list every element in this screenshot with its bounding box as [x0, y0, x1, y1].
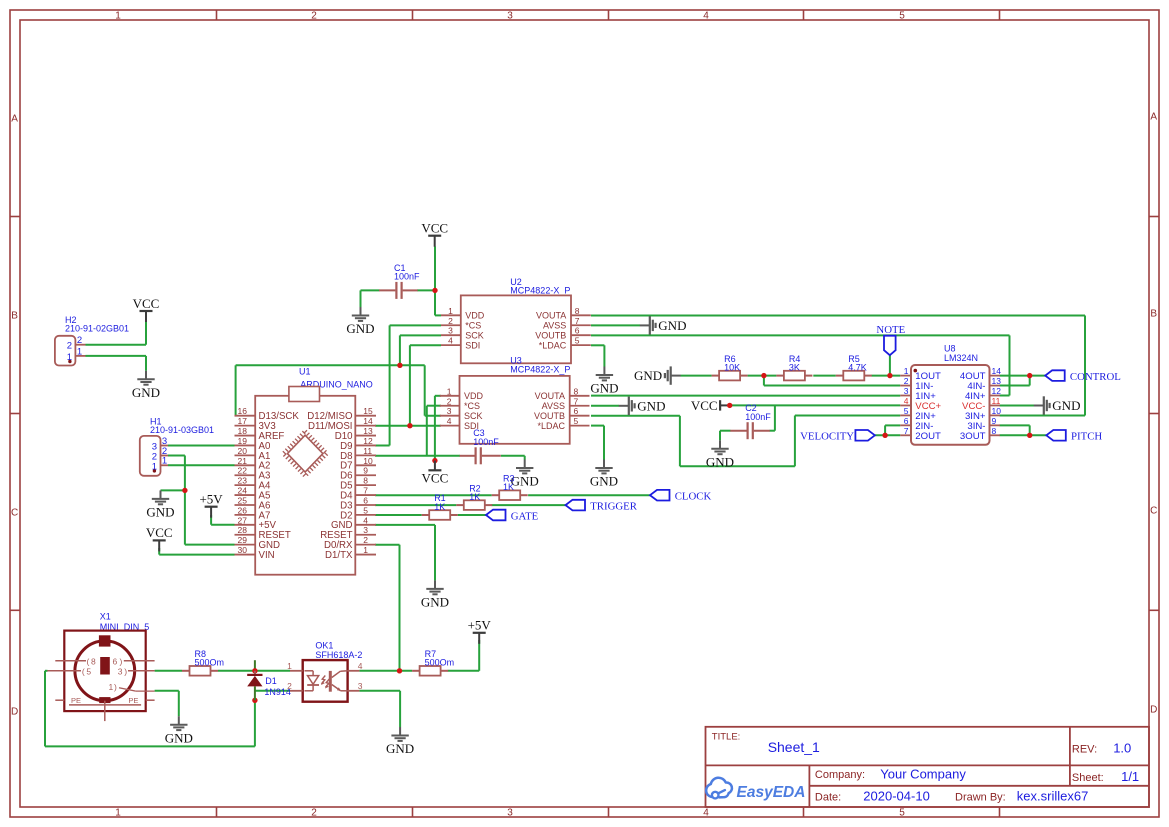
- svg-text:C: C: [11, 508, 18, 519]
- svg-text:GND: GND: [132, 385, 160, 400]
- svg-text:5: 5: [899, 11, 905, 22]
- svg-text:10K: 10K: [724, 362, 740, 372]
- svg-text:2: 2: [904, 376, 909, 386]
- svg-text:5: 5: [575, 336, 580, 346]
- svg-text:VCC: VCC: [146, 525, 173, 540]
- svg-text:2: 2: [287, 681, 292, 691]
- wire R8 to OK1.1: [218, 670, 290, 672]
- resistor R6 10K: [712, 354, 748, 381]
- svg-text:SCK: SCK: [465, 331, 484, 341]
- IC U2 MCP4822-X_P: [441, 277, 591, 364]
- svg-text:2: 2: [447, 396, 452, 406]
- wire PITCH node to U8.3IN-: [1029, 425, 1031, 435]
- svg-text:VCC: VCC: [133, 296, 160, 311]
- svg-text:1: 1: [904, 366, 909, 376]
- wire D4 row to R3 to CLOCK: [375, 494, 492, 496]
- resistor R1 1K: [422, 493, 458, 520]
- svg-text:GND: GND: [146, 505, 174, 520]
- svg-text:VDD: VDD: [465, 311, 485, 321]
- optocoupler OK1 SFH618A-2: [287, 640, 363, 701]
- power flag VCC (VIN): [146, 525, 173, 551]
- svg-text:18: 18: [238, 426, 248, 436]
- wire VELOCITY to U8.2OUT/2IN-: [875, 434, 900, 436]
- svg-text:8: 8: [575, 306, 580, 316]
- wire CONTROL node to U8.4IN-: [1029, 376, 1031, 386]
- resistor R5 4.7K: [836, 354, 872, 381]
- wire U3.VOUTB loop to U8.2IN+: [591, 415, 680, 417]
- svg-text:D: D: [11, 707, 18, 718]
- svg-text:GND: GND: [634, 368, 662, 383]
- IC U3 MCP4822-X_P: [440, 356, 590, 444]
- svg-text:500Om: 500Om: [195, 658, 225, 668]
- ground GND (C2): [706, 440, 734, 469]
- wire H2.1 to GND: [86, 355, 147, 357]
- svg-text:SFH618A-2: SFH618A-2: [315, 650, 362, 660]
- svg-text:1: 1: [162, 456, 167, 467]
- wire D2 row to R1 to GATE: [375, 514, 422, 516]
- svg-text:): ): [124, 666, 127, 676]
- svg-text:210-91-03GB01: 210-91-03GB01: [150, 425, 214, 435]
- IC U8 LM324N: [900, 344, 1001, 445]
- svg-text:(: (: [82, 666, 85, 676]
- svg-text:5: 5: [899, 807, 905, 818]
- svg-text:VOUTB: VOUTB: [535, 331, 566, 341]
- svg-text:27: 27: [238, 515, 248, 525]
- resistor R4 3K: [776, 354, 812, 381]
- wire U2.VOUTA to U8.3IN+: [591, 315, 1085, 317]
- svg-text:100nF: 100nF: [745, 412, 771, 422]
- svg-text:5: 5: [86, 666, 91, 676]
- svg-text:GND: GND: [637, 398, 665, 413]
- svg-text:CONTROL: CONTROL: [1070, 371, 1121, 383]
- svg-text:1: 1: [109, 682, 114, 692]
- svg-text:3: 3: [358, 681, 363, 691]
- wire VCC mid to U8.VCC+: [730, 404, 901, 406]
- svg-text:SCK: SCK: [464, 411, 483, 421]
- svg-text:3OUT: 3OUT: [960, 431, 986, 442]
- svg-text:8: 8: [574, 386, 579, 396]
- wire R4 to R5: [813, 375, 836, 377]
- svg-text:VOUTA: VOUTA: [535, 391, 565, 401]
- wire R6/R4 node to U8.1IN-: [763, 376, 765, 386]
- wire U3.AVSS to GND flag: [591, 405, 619, 407]
- svg-text:4: 4: [703, 807, 709, 818]
- svg-text:7: 7: [574, 396, 579, 406]
- wire U3.*LDAC to GND: [591, 425, 604, 427]
- svg-text:A: A: [1150, 112, 1157, 123]
- svg-text:+5V: +5V: [468, 618, 492, 633]
- frame row labels right: [1150, 112, 1157, 716]
- wire R5 to U8.1OUT: [872, 375, 901, 377]
- svg-text:PE: PE: [128, 696, 138, 705]
- svg-text:11: 11: [992, 396, 1001, 406]
- svg-text:5: 5: [363, 505, 368, 515]
- svg-text:20: 20: [238, 446, 248, 456]
- svg-text:EasyEDA: EasyEDA: [737, 784, 806, 801]
- svg-text:100nF: 100nF: [473, 437, 499, 447]
- svg-text:3: 3: [118, 666, 123, 676]
- wire H2.2 to VCC: [86, 344, 147, 346]
- svg-text:PITCH: PITCH: [1071, 431, 1102, 443]
- svg-text:Drawn By:: Drawn By:: [955, 792, 1006, 804]
- wire SCK net D13 to U3.SCK: [235, 365, 237, 415]
- svg-text:9: 9: [363, 466, 368, 476]
- svg-text:500Om: 500Om: [425, 658, 455, 668]
- svg-text:Your Company: Your Company: [880, 766, 966, 781]
- svg-text:8: 8: [91, 656, 96, 666]
- diode D1 1N914: [247, 671, 291, 701]
- svg-text:2020-04-10: 2020-04-10: [863, 789, 930, 804]
- svg-text:GND: GND: [590, 381, 618, 396]
- wire H1.1 to A2: [168, 464, 235, 466]
- svg-text:1.0: 1.0: [1113, 740, 1131, 755]
- svg-text:B: B: [11, 311, 18, 322]
- wire U2.SCK to SCK net: [400, 334, 441, 336]
- svg-text:6: 6: [113, 656, 118, 666]
- netport CLOCK: [650, 490, 711, 503]
- svg-text:14: 14: [992, 366, 1002, 376]
- svg-text:D1/TX: D1/TX: [325, 550, 353, 561]
- svg-text:25: 25: [238, 495, 248, 505]
- svg-text:4: 4: [363, 515, 368, 525]
- title block: [706, 727, 1150, 807]
- svg-text:6: 6: [575, 326, 580, 336]
- svg-text:2: 2: [67, 341, 72, 352]
- svg-text:8: 8: [992, 426, 997, 436]
- svg-text:5: 5: [904, 406, 909, 416]
- svg-text:GND: GND: [386, 741, 414, 756]
- svg-text:(: (: [87, 656, 90, 666]
- wire U3.VDD to VCC flag: [435, 395, 441, 397]
- svg-text:3: 3: [507, 807, 513, 818]
- svg-text:7: 7: [575, 316, 580, 326]
- svg-text:): ): [120, 656, 123, 666]
- svg-text:D: D: [1150, 705, 1157, 716]
- svg-text:2: 2: [448, 316, 453, 326]
- svg-text:17: 17: [238, 416, 248, 426]
- svg-text:LM324N: LM324N: [944, 353, 978, 363]
- wire U8.3OUT to PITCH: [1000, 434, 1047, 436]
- svg-text:4: 4: [904, 396, 909, 406]
- svg-text:22: 22: [238, 466, 248, 476]
- wire X1.1 to GND: [155, 690, 179, 692]
- wire H1.3 to A0: [168, 445, 235, 447]
- svg-text:1/1: 1/1: [1121, 769, 1139, 784]
- wire C1 left to GND: [361, 289, 380, 291]
- svg-text:1: 1: [115, 11, 121, 22]
- netport VELOCITY: [800, 430, 875, 443]
- power flag +5V (pin27): [199, 492, 223, 518]
- svg-text:PE: PE: [71, 696, 81, 705]
- svg-text:28: 28: [238, 525, 248, 535]
- svg-text:GND: GND: [421, 595, 449, 610]
- svg-text:26: 26: [238, 505, 248, 515]
- svg-text:12: 12: [992, 386, 1002, 396]
- ground GND (Arduino GND pin): [421, 580, 449, 609]
- svg-text:1: 1: [115, 807, 121, 818]
- wire OK1.2 to D1: [255, 690, 290, 692]
- svg-text:VELOCITY: VELOCITY: [800, 431, 854, 443]
- svg-text:*LDAC: *LDAC: [537, 421, 565, 431]
- svg-text:U1: U1: [299, 367, 311, 377]
- wire U8.4OUT to CONTROL: [1000, 375, 1046, 377]
- wire X1.3 to R8: [155, 670, 182, 672]
- svg-text:2: 2: [363, 535, 368, 545]
- resistor R8 500Om: [182, 649, 224, 676]
- ground GND (U2 LDAC): [590, 367, 618, 396]
- wire U2.SDI drop: [410, 344, 441, 346]
- power flag VCC (U3 VDD): [432, 458, 437, 463]
- wire U2.AVSS to GND flag: [591, 324, 640, 326]
- svg-text:14: 14: [363, 416, 373, 426]
- ground GND (H1/pin2 node): [146, 490, 174, 519]
- wire D8 to C3: [375, 455, 460, 457]
- wire GND flag to R6: [681, 375, 712, 377]
- svg-text:1: 1: [448, 306, 453, 316]
- svg-text:3: 3: [448, 326, 453, 336]
- svg-text:19: 19: [238, 436, 248, 446]
- ground flag GND (U8 VCC-): [1034, 396, 1081, 414]
- svg-text:VCC: VCC: [421, 221, 448, 236]
- svg-text:*LDAC: *LDAC: [539, 340, 567, 350]
- wire D11/MOSI to U3.SDI: [375, 425, 441, 427]
- svg-text:D1: D1: [265, 676, 277, 686]
- svg-text:23: 23: [238, 476, 248, 486]
- ground GND (OK1.3): [386, 727, 414, 756]
- svg-text:3: 3: [507, 11, 513, 22]
- svg-text:): ): [114, 682, 117, 692]
- svg-text:3K: 3K: [789, 362, 800, 372]
- svg-text:3: 3: [447, 406, 452, 416]
- svg-text:AVSS: AVSS: [542, 401, 565, 411]
- svg-text:2OUT: 2OUT: [915, 431, 941, 442]
- ground flag GND (U3 AVSS): [619, 397, 666, 415]
- wire D3 row to R2 to TRIGGER: [375, 504, 456, 506]
- wire Arduino GND pin to GND: [375, 524, 435, 526]
- svg-text:12: 12: [363, 436, 373, 446]
- svg-text:Sheet:: Sheet:: [1072, 772, 1104, 784]
- svg-text:1: 1: [77, 346, 82, 357]
- svg-text:VCC: VCC: [691, 398, 718, 413]
- svg-text:GND: GND: [511, 474, 539, 489]
- svg-text:GND: GND: [590, 474, 618, 489]
- svg-text:GATE: GATE: [511, 510, 539, 522]
- svg-text:16: 16: [238, 406, 248, 416]
- svg-text:4.7K: 4.7K: [848, 362, 867, 372]
- wire VCC to VIN: [158, 548, 160, 555]
- svg-text:B: B: [1150, 309, 1157, 320]
- netport CONTROL: [1045, 370, 1121, 383]
- IC U1 ARDUINO_NANO: [235, 367, 377, 575]
- wire D1 top stub: [254, 660, 256, 671]
- capacitor C1 100nF: [379, 263, 420, 299]
- wire C3 right to GND: [501, 455, 525, 457]
- wire C2 left to GND: [720, 430, 731, 432]
- svg-text:Sheet_1: Sheet_1: [768, 739, 820, 755]
- EasyEDA logo: [706, 778, 805, 801]
- ground GND (X1 pin1): [165, 716, 193, 745]
- connector X1 MINI_DIN_5: [47, 612, 154, 722]
- svg-text:21: 21: [238, 456, 248, 466]
- svg-text:C: C: [1150, 506, 1157, 517]
- svg-text:MCP4822-X_P: MCP4822-X_P: [510, 364, 570, 374]
- netport GATE: [486, 510, 539, 523]
- wire D0/RX to OK1.4 row: [375, 544, 400, 546]
- svg-text:24: 24: [238, 486, 248, 496]
- svg-text:TRIGGER: TRIGGER: [590, 500, 638, 512]
- power flag VCC top (C1): [421, 221, 448, 247]
- svg-text:X1: X1: [100, 612, 111, 622]
- ground flag GND (R6 left): [634, 366, 681, 384]
- svg-text:2: 2: [77, 335, 82, 346]
- resistor R2 1K: [456, 483, 492, 510]
- svg-text:1K: 1K: [503, 482, 514, 492]
- wire U8.VCC- to GND flag: [1000, 405, 1036, 407]
- capacitor C3 100nF: [460, 428, 501, 464]
- connector H2 210-91-02GB01: [55, 315, 129, 365]
- wire H1.2 to GND and Arduino GND: [168, 455, 185, 457]
- wire OK1.4 to R7: [359, 670, 412, 672]
- svg-text:1: 1: [447, 386, 452, 396]
- svg-text:TITLE:: TITLE:: [712, 732, 741, 743]
- svg-text:6: 6: [904, 416, 909, 426]
- svg-text:REV:: REV:: [1072, 743, 1097, 755]
- power flag VCC (H2): [133, 296, 160, 322]
- svg-text:SDI: SDI: [465, 340, 480, 350]
- svg-text:4: 4: [448, 336, 453, 346]
- netport PITCH: [1046, 430, 1102, 443]
- power flag +5V (R7): [468, 618, 492, 644]
- connector H1 210-91-03GB01: [140, 416, 214, 475]
- netport TRIGGER: [566, 500, 638, 513]
- svg-text:100nF: 100nF: [394, 272, 420, 282]
- svg-text:4: 4: [703, 11, 709, 22]
- svg-text:3: 3: [363, 525, 368, 535]
- svg-text:3: 3: [904, 386, 909, 396]
- svg-text:4: 4: [358, 661, 363, 671]
- wire VCC node to U2.VDD: [434, 290, 436, 315]
- svg-text:10: 10: [992, 406, 1002, 416]
- svg-text:GND: GND: [658, 318, 686, 333]
- netport NOTE: [876, 324, 905, 355]
- wire OK1.3 to GND: [359, 690, 400, 692]
- svg-text:A: A: [11, 114, 18, 125]
- svg-text:2: 2: [311, 11, 317, 22]
- wire X1.5 loop to D1 anode: [254, 700, 256, 746]
- wire +5V to pin27: [210, 515, 212, 525]
- svg-text:8: 8: [363, 476, 368, 486]
- capacitor C2 100nF: [730, 403, 771, 439]
- svg-text:10: 10: [363, 456, 373, 466]
- wire U2.*CS to D9: [390, 324, 441, 326]
- ground GND (U3 LDAC): [590, 460, 618, 489]
- svg-text:GND: GND: [165, 730, 193, 745]
- svg-text:210-91-02GB01: 210-91-02GB01: [65, 324, 129, 334]
- wire R7 to +5V: [448, 670, 480, 672]
- svg-text:NOTE: NOTE: [876, 324, 905, 336]
- svg-text:2: 2: [311, 807, 317, 818]
- svg-text:VDD: VDD: [464, 391, 484, 401]
- svg-text:6: 6: [574, 406, 579, 416]
- wire U3.*CS drop to D8 net: [427, 405, 441, 407]
- svg-text:GND: GND: [1052, 398, 1080, 413]
- svg-text:6: 6: [363, 495, 368, 505]
- wire U3.VOUTA to U8.1IN+: [591, 395, 900, 397]
- svg-text:15: 15: [363, 406, 373, 416]
- svg-text:VCC: VCC: [422, 470, 449, 485]
- svg-text:kex.srillex67: kex.srillex67: [1017, 789, 1089, 804]
- wire C1 right to VCC node: [417, 289, 435, 291]
- svg-text:13: 13: [992, 376, 1002, 386]
- wire U2.*LDAC to GND: [591, 344, 604, 346]
- svg-text:VIN: VIN: [259, 550, 275, 561]
- svg-text:9: 9: [992, 416, 997, 426]
- svg-text:5: 5: [574, 416, 579, 426]
- svg-text:CLOCK: CLOCK: [675, 491, 712, 503]
- frame column labels bottom: [115, 807, 905, 818]
- wire U2.VOUTB to U8.4IN+: [591, 334, 1010, 336]
- svg-text:4: 4: [447, 416, 452, 426]
- svg-text:MCP4822-X_P: MCP4822-X_P: [510, 286, 570, 296]
- ground flag GND (U2 AVSS): [640, 316, 687, 334]
- ground GND (C3): [511, 460, 539, 489]
- svg-text:1: 1: [287, 661, 292, 671]
- svg-text:Company:: Company:: [815, 769, 865, 781]
- svg-text:7: 7: [904, 426, 909, 436]
- svg-text:VOUTB: VOUTB: [534, 411, 565, 421]
- frame column labels top: [115, 11, 905, 22]
- wire R6 to R4: [748, 375, 777, 377]
- wire NOTE drop: [889, 355, 891, 375]
- svg-text:29: 29: [238, 535, 248, 545]
- wire VCC flag to node: [434, 247, 436, 291]
- ground GND (H2): [132, 371, 160, 400]
- svg-text:AVSS: AVSS: [543, 321, 566, 331]
- svg-text:1K: 1K: [434, 502, 445, 512]
- svg-text:11: 11: [363, 446, 372, 456]
- svg-text:*CS: *CS: [464, 401, 480, 411]
- svg-text:+5V: +5V: [199, 492, 223, 507]
- svg-text:GND: GND: [706, 455, 734, 470]
- svg-text:OK1: OK1: [315, 640, 333, 650]
- frame row labels left: [11, 114, 18, 718]
- ground GND (C1 left): [346, 307, 374, 336]
- svg-text:*CS: *CS: [465, 321, 481, 331]
- power flag VCC (U8 supply): [691, 398, 728, 413]
- svg-text:GND: GND: [346, 321, 374, 336]
- svg-text:1: 1: [363, 545, 368, 555]
- svg-text:Date:: Date:: [815, 792, 841, 804]
- svg-text:13: 13: [363, 426, 373, 436]
- svg-text:VOUTA: VOUTA: [536, 311, 566, 321]
- resistor R7 500Om: [412, 649, 454, 676]
- wire C2 drop: [774, 405, 776, 430]
- svg-text:7: 7: [363, 486, 368, 496]
- svg-text:1K: 1K: [469, 492, 480, 502]
- resistor R3 1K: [492, 473, 528, 500]
- svg-text:30: 30: [238, 545, 248, 555]
